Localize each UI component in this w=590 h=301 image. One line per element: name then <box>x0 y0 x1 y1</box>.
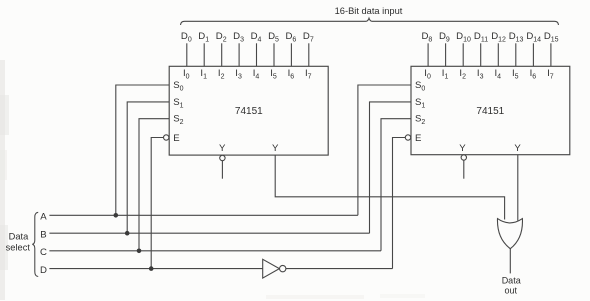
svg-text:Y: Y <box>272 143 279 154</box>
scan smudge left edge <box>0 60 9 300</box>
wire U2 S0 to node A <box>358 85 411 215</box>
wire U2 E to inverted D <box>393 138 406 269</box>
wire D9 <box>445 43 447 66</box>
node D junction <box>149 266 154 271</box>
wire U2 S2 to node C <box>381 119 411 251</box>
svg-text:out: out <box>505 286 518 296</box>
wire D13 <box>515 43 517 66</box>
wire U2 S1 to node B <box>370 102 412 233</box>
node C junction <box>137 249 142 254</box>
wire D0 <box>186 43 188 66</box>
U2 pin E bubble <box>405 135 410 140</box>
wire D7 <box>308 43 310 66</box>
svg-text:Y: Y <box>219 143 226 154</box>
wire D8 <box>427 43 429 66</box>
wire select line C <box>49 250 381 252</box>
brace data select <box>32 212 38 276</box>
svg-text:B: B <box>40 230 46 241</box>
U2 pin labels I0-I7 <box>424 68 553 81</box>
svg-text:A: A <box>40 212 47 223</box>
svg-text:Data: Data <box>502 275 521 285</box>
wire D4 <box>256 43 258 66</box>
svg-text:74151: 74151 <box>235 106 263 117</box>
svg-text:74151: 74151 <box>476 106 504 117</box>
wire U1 E to node D <box>151 138 163 269</box>
mux U1 74151 body <box>169 66 328 155</box>
svg-text:Data: Data <box>9 231 29 241</box>
wire D3 <box>238 43 240 66</box>
svg-text:D: D <box>40 265 47 276</box>
wire U1 Y to OR gate <box>275 155 504 219</box>
node B junction <box>125 231 130 236</box>
U1 pin labels S0 S1 S2 E <box>173 80 183 144</box>
wire D15 <box>550 43 552 66</box>
mux U2 74151 body <box>411 66 570 154</box>
wire select line B <box>49 232 369 234</box>
scan smudge bottom caption remnants <box>266 294 425 299</box>
U1 pin E bubble <box>164 135 169 140</box>
U1 pin labels I0-I7 <box>183 68 312 81</box>
labels D0-D7 <box>181 31 314 44</box>
wire inverter output to U2 E <box>286 268 393 270</box>
OR gate U3 <box>497 219 522 249</box>
wire D12 <box>497 43 499 66</box>
svg-text:16-Bit data input: 16-Bit data input <box>335 6 403 16</box>
node A junction <box>114 213 119 218</box>
svg-text:C: C <box>40 247 47 258</box>
labels D8-D15 <box>421 31 558 44</box>
brace 16-bit data input <box>181 18 559 25</box>
wire D1 <box>203 43 205 66</box>
wire select line D <box>49 268 262 270</box>
junction dots on select lines <box>114 213 154 271</box>
wire D5 <box>273 43 275 66</box>
svg-text:Y: Y <box>459 143 466 154</box>
inverter NOT gate on D <box>263 259 280 278</box>
U2 pin labels S0 S1 S2 E <box>415 80 425 144</box>
U1 output Ybar bubble and stub <box>220 155 225 160</box>
wire data out <box>509 249 511 274</box>
wire U1 S0 to node A <box>116 85 169 215</box>
svg-text:select: select <box>6 243 31 253</box>
wire D11 <box>480 43 482 66</box>
wire D6 <box>290 43 292 66</box>
wire D14 <box>532 43 534 66</box>
svg-text:Y: Y <box>514 143 521 154</box>
U2 output Ybar bubble and stub <box>461 155 466 160</box>
wire D2 <box>221 43 223 66</box>
wire select line A <box>49 214 358 216</box>
svg-text:E: E <box>415 133 421 144</box>
wire U1 S1 to node B <box>127 102 169 233</box>
wire U2 Y to OR gate <box>517 155 519 221</box>
svg-text:E: E <box>173 133 179 144</box>
wire U1 S2 to node C <box>139 119 169 251</box>
wire D10 <box>462 43 464 66</box>
